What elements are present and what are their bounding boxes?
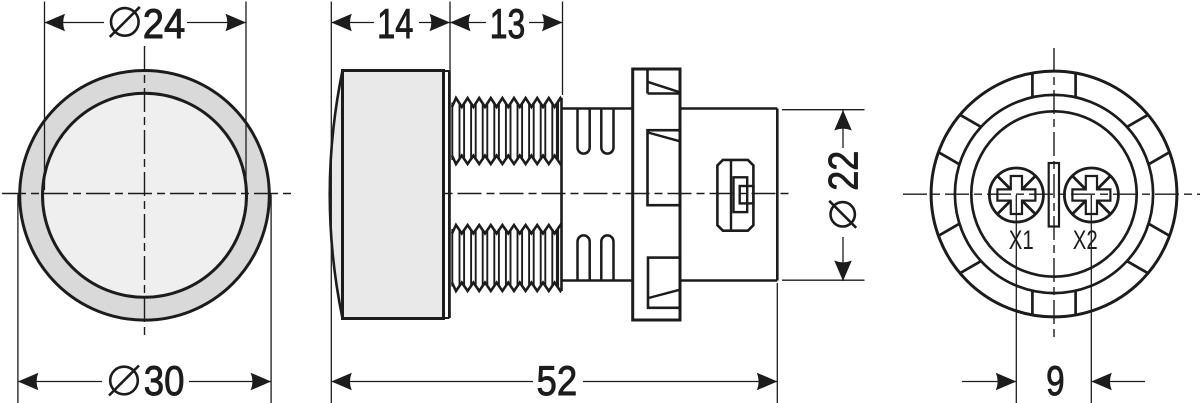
svg-text:14: 14 xyxy=(377,0,413,47)
svg-text:9: 9 xyxy=(1046,357,1065,403)
svg-text:22: 22 xyxy=(820,151,867,191)
svg-text:30: 30 xyxy=(144,357,185,403)
svg-text:52: 52 xyxy=(537,357,578,403)
svg-text:X2: X2 xyxy=(1073,225,1098,255)
svg-text:13: 13 xyxy=(490,0,526,47)
svg-text:X1: X1 xyxy=(1009,225,1034,255)
svg-text:24: 24 xyxy=(143,0,186,47)
